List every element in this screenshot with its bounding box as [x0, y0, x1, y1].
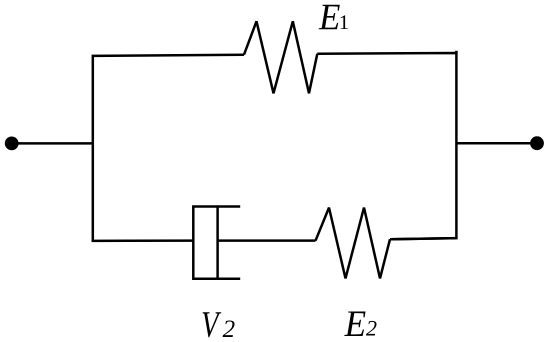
wire right-terminal [456, 142, 538, 145]
label V2 [203, 312, 222, 337]
wire right branch: top-right corner, right vertical, bottom-right corner [317, 53, 456, 239]
spring E2 [316, 208, 391, 279]
label E1 [319, 5, 340, 30]
left terminal node [5, 137, 19, 151]
spring E1 [244, 21, 317, 93]
junction nub at top-right corner [455, 51, 458, 54]
dashpot V2 cylinder (left wall, top wall, bottom wall) [193, 207, 240, 279]
right terminal node [530, 136, 544, 150]
wire left-terminal [12, 142, 94, 145]
wire bottom-right [390, 238, 456, 239]
label E2 [344, 311, 365, 336]
wire left branch: top-left corner, left vertical, bottom-left corner [93, 55, 244, 241]
dashpot V2 piston plate [216, 205, 219, 280]
dashpot V2 piston rod [218, 239, 316, 242]
